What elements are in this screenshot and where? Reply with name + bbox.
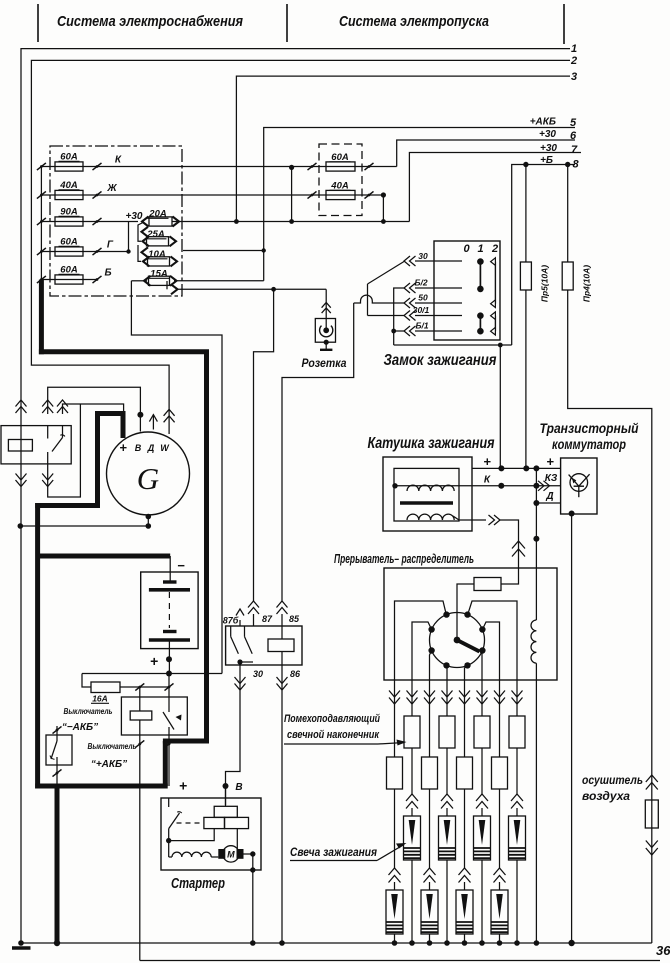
lock terminal Б/2 line — [415, 287, 462, 289]
lock contact column2 bar upper — [494, 262, 496, 304]
plug 3 connector chevrons — [424, 868, 436, 875]
fuse 10А right arrow — [171, 256, 178, 266]
generator plus junction dot — [137, 412, 143, 418]
thick cable from Б fuse row — [39, 280, 44, 355]
relay 87 wire from fuse 15А branch — [254, 289, 274, 601]
starter contact lower wire — [168, 829, 170, 857]
junction dot Ж branch — [381, 192, 386, 197]
+Б return line under lock — [394, 344, 512, 346]
lock column2 contact wedge — [491, 300, 496, 308]
generator bottom dot — [146, 514, 152, 520]
16А fuse body — [91, 682, 120, 693]
commutator transistor symbol — [570, 474, 588, 492]
svg-text:Б/1: Б/1 — [415, 321, 428, 331]
fuse 15А left arrow — [144, 276, 151, 286]
coil K dot right — [533, 483, 539, 489]
svg-text:+: + — [179, 778, 187, 794]
battery plus rail — [82, 673, 222, 675]
suppressor tip 7 body — [499, 680, 501, 757]
svg-text:85: 85 — [289, 614, 300, 624]
svg-text:Б/2: Б/2 — [414, 278, 427, 288]
spark plug 6 body — [481, 808, 483, 816]
generator ground junction dot — [146, 523, 152, 529]
relay 30 chevrons — [235, 684, 246, 691]
spark plug 2 ground wire — [411, 860, 413, 943]
svg-text:Система электропуска: Система электропуска — [339, 13, 489, 30]
lock terminal Б/1 line — [415, 330, 462, 332]
svg-text:Помехоподавляющий: Помехоподавляющий — [284, 713, 380, 725]
thick cable jog down to starter plus — [163, 741, 168, 786]
junction dot commutator wire on bus — [568, 940, 574, 946]
fuse F3 90А body — [55, 217, 83, 226]
rotor arm — [457, 640, 480, 652]
svg-text:0: 0 — [463, 243, 470, 255]
distributor output wire 5 — [465, 665, 468, 680]
wire 5 +AKB (down at left end to 15A fuse line) — [264, 128, 575, 281]
generator bottom wire — [147, 515, 149, 526]
svg-text:Ж: Ж — [106, 183, 117, 194]
starter solenoid winding lower-left — [204, 817, 225, 828]
svg-text:Выключатель: Выключатель — [64, 706, 113, 716]
bracket arrow 25А — [142, 227, 149, 237]
relay contact 2 — [244, 626, 246, 637]
thick cable bottom run — [35, 784, 168, 789]
plus switch coil connection mark — [135, 740, 144, 747]
lock column2 contact wedge — [491, 327, 496, 335]
bracket 20А to 25А — [138, 223, 143, 242]
svg-text:Г: Г — [107, 240, 114, 251]
starter B wire into solenoid — [225, 786, 227, 806]
rotor electrode dot 7 — [443, 662, 449, 668]
plug 2 connector chevrons — [406, 794, 418, 801]
bracket arrow 10А — [142, 247, 149, 257]
spark plug 8 body — [516, 808, 518, 816]
regulator relay box — [1, 426, 71, 464]
wire 7 +30 (down at left end to 40A fuse branch) — [409, 153, 581, 222]
fuse F1 60А body — [55, 162, 83, 171]
junction dot Б/1 on bracket — [391, 329, 396, 334]
relay contact common dot — [237, 659, 242, 664]
15А-left wire down to starter relay 87b / battery plus rail — [131, 281, 222, 674]
suppressor tip 6 body — [481, 680, 483, 716]
junction dot plug wire 8 on bus — [514, 940, 520, 946]
svg-text:+: + — [546, 454, 554, 469]
fuse F5 60А row line — [41, 279, 98, 281]
wire 1 (top bus, wraps left edge down to ground) — [21, 49, 570, 943]
starter output dot — [250, 851, 255, 856]
commutator Д line — [536, 502, 560, 504]
Д wire down to distributor coil — [535, 468, 537, 620]
svg-text:30: 30 — [418, 251, 428, 261]
lock contact column1 link 30-Б/2 — [479, 262, 481, 289]
coil + line — [472, 467, 561, 469]
fuse 15А body — [149, 276, 170, 285]
distributor box — [384, 568, 557, 680]
K line chevrons to КЗ — [544, 481, 550, 491]
svg-text:Пр4(10А): Пр4(10А) — [582, 265, 592, 302]
lock terminal Б/1 chevrons — [404, 326, 410, 336]
svg-text:КЗ: КЗ — [545, 473, 558, 484]
socket body box — [315, 319, 335, 343]
wire 8 +B (down at left end under ignition lock) — [512, 165, 575, 346]
junction dot coil feed — [498, 343, 503, 348]
plug 8 connector chevrons — [511, 794, 523, 801]
plug 5 connector chevrons — [459, 868, 471, 875]
distributor output wire 4 — [445, 665, 448, 680]
connection mark at battery riser — [165, 683, 174, 690]
Д junction dot — [533, 500, 539, 506]
fuse F4 60А body — [55, 247, 83, 256]
distributor output wire 1 — [395, 601, 447, 680]
thick cable upper horizontal — [39, 349, 209, 354]
fuse Pr4 body — [562, 262, 573, 290]
junction dot wire8/fuse Pr5 — [523, 162, 528, 167]
resistor lead to rotor — [457, 584, 474, 640]
plus switch coil wire — [139, 687, 141, 711]
fuse Pr5 body — [520, 262, 531, 290]
lock terminal 50 line — [415, 302, 462, 304]
battery plate long top — [149, 588, 190, 592]
plus switch contact connection mark — [165, 740, 174, 747]
regulator contact outer stub — [62, 426, 64, 438]
spark plug wire 1 connector chevrons — [389, 698, 400, 705]
fuse 25А body — [147, 237, 169, 246]
minus switch wire upper stub — [56, 726, 58, 741]
wire 30-30/1 vertical (under hop) — [367, 284, 369, 316]
spark plug 3 ground wire — [429, 934, 431, 943]
starter contact blade — [169, 813, 180, 829]
starter output wire to ground bus — [252, 854, 254, 943]
coil K terminal dot — [498, 483, 504, 489]
header tick middle — [286, 4, 288, 42]
thick cable left branch — [35, 503, 100, 508]
junction dot plug wire 7 on bus — [497, 940, 503, 946]
plus switch contact blade — [163, 712, 174, 730]
coil HV output wire — [453, 516, 486, 520]
connection mark on 16А line — [135, 683, 144, 690]
fuse F3 output connection mark — [93, 218, 102, 225]
K row line through 60А fuse — [292, 166, 397, 168]
fuse 25А left arrow — [143, 236, 150, 246]
minus switch connection mark upper — [53, 726, 62, 733]
wire 2 (second bus, wraps left edge, to generator W) — [31, 60, 570, 434]
commutator bottom pin dot — [569, 511, 575, 517]
fuse Pr5 wire (from +Б to coil +) — [525, 165, 527, 263]
battery plus lead — [168, 640, 170, 674]
socket lower stub — [325, 342, 327, 350]
svg-text:В: В — [135, 443, 142, 453]
spark plug wire 6 connector chevrons — [477, 698, 488, 705]
svg-text:87б: 87б — [223, 616, 239, 626]
lock terminal 30 line — [415, 260, 462, 262]
distributor resistor — [474, 578, 501, 591]
svg-text:+: + — [150, 653, 158, 669]
svg-text:30: 30 — [253, 669, 263, 679]
starter solenoid winding lower-right — [225, 817, 249, 828]
svg-text:Д: Д — [545, 491, 553, 502]
svg-text:30/1: 30/1 — [413, 305, 430, 315]
fuse F4 60А row line — [41, 251, 128, 253]
battery dashed middle — [168, 592, 170, 628]
junction dot plug wire 3 on bus — [427, 940, 433, 946]
junction dot +30/Г row — [126, 249, 130, 253]
fuse F2 output connection mark — [93, 191, 102, 198]
svg-text:Свеча зажигания: Свеча зажигания — [290, 847, 377, 859]
ignition coil core bar — [400, 501, 453, 505]
battery plus dot — [166, 656, 172, 662]
starter solenoid output riser — [169, 829, 215, 841]
svg-text:Стартер: Стартер — [171, 876, 225, 892]
minus switch connection mark lower — [53, 769, 62, 776]
fuse F3 bus connection mark — [37, 218, 46, 225]
suppressor tip 5 body — [464, 680, 466, 757]
junction dot wire3 on +30 line — [234, 219, 239, 224]
spark plug 8 ground wire — [516, 860, 518, 943]
relay 87 connector chevrons — [248, 601, 259, 608]
svg-text:К: К — [484, 475, 491, 486]
svg-text:2: 2 — [570, 55, 577, 67]
junction dot relay86 on bus — [279, 940, 285, 946]
Г row extension to +АКБ riser — [183, 250, 264, 252]
junction dot socket feed / relay-87 drop — [271, 287, 276, 292]
second bottom rail — [140, 960, 660, 962]
socket symbol open arc — [320, 326, 333, 337]
suppressor label underline — [284, 743, 378, 745]
svg-text:Прерыватель– распределитель: Прерыватель– распределитель — [334, 552, 474, 566]
svg-text:50: 50 — [418, 293, 428, 303]
spark plug 3 body — [429, 882, 431, 890]
rotor electrode dot 1 — [443, 611, 449, 617]
generator G circle — [107, 432, 190, 515]
spark label arrow — [377, 845, 404, 861]
commutator box — [561, 458, 597, 514]
regulator coil — [8, 440, 32, 452]
battery plus junction dot on rail — [166, 671, 172, 677]
thick cable right leg — [95, 411, 100, 508]
svg-text:воздуха: воздуха — [582, 789, 630, 803]
fuse 60А right connection mark — [365, 163, 374, 170]
spark plug wire 5 connector chevrons — [459, 698, 470, 705]
distributor output wire 7 — [482, 622, 499, 680]
bracket 25А to 10А — [138, 245, 141, 261]
generator D terminal arrow — [152, 415, 154, 430]
plug 6 connector chevrons — [476, 794, 488, 801]
junction dot Ж branch bottom — [381, 219, 386, 224]
svg-text:1: 1 — [571, 43, 577, 55]
starter motor right lead — [244, 853, 253, 855]
svg-text:87: 87 — [262, 614, 273, 624]
lock column2 contact wedge — [491, 258, 496, 266]
fuse F5 output connection mark — [93, 276, 102, 283]
ground bus — [21, 942, 652, 944]
spark plug 7 body — [499, 882, 501, 890]
minus switch lower stub — [56, 757, 58, 786]
junction dot wire8/fuse Pr4 — [565, 162, 570, 167]
thick cable jog left — [163, 739, 209, 744]
junction dot thick-ground — [54, 940, 60, 946]
fuse-block left bus (thin part) — [40, 167, 42, 280]
spark plug wire 2 connector chevrons — [407, 698, 418, 705]
starter field winding — [172, 852, 211, 857]
generator W terminal chevrons (wire 2) — [164, 409, 175, 416]
relay 86 wire to ground bus — [281, 652, 283, 944]
HV connector chevrons — [512, 541, 525, 549]
thick cable bridge at generator plus — [95, 411, 126, 416]
middle fuse block dashed border — [319, 144, 362, 216]
socket symbol center dot — [323, 327, 329, 333]
svg-text:+АКБ: +АКБ — [530, 117, 556, 128]
thick cable ground branch — [55, 786, 60, 943]
socket feed arrow — [171, 284, 178, 294]
junction dot plug wire 5 on bus — [462, 940, 468, 946]
fuse F4 bus connection mark — [37, 248, 46, 255]
wire1 connector chevrons below regulator — [16, 480, 27, 487]
thick cable left down leg — [35, 503, 40, 789]
spark plug 7 ground wire — [499, 934, 501, 943]
starter motor brush right — [237, 849, 244, 859]
svg-text:2: 2 — [491, 243, 498, 255]
regulator contact chevrons (inner) — [42, 400, 53, 407]
socket feed line (to Розетка) — [176, 288, 326, 290]
rotor electrode dot 2 — [464, 611, 470, 617]
svg-text:Розетка: Розетка — [302, 356, 347, 370]
starter motor brush left — [218, 849, 225, 859]
svg-text:Транзисторный: Транзисторный — [540, 420, 639, 436]
lock terminal 30/1 line — [415, 315, 462, 317]
spark plug 5 body — [464, 882, 466, 890]
junction dot plug wire 6 on bus — [479, 940, 485, 946]
junction dot ground wire / wire1 — [18, 523, 24, 529]
svg-text:G: G — [137, 461, 159, 496]
coil + dot (feed) — [498, 465, 504, 471]
wire 30 to 30/1 diagonal — [368, 262, 405, 285]
coil + feed wire down — [499, 345, 501, 468]
thick cable battery minus branch — [38, 554, 171, 559]
distributor output wire 3 — [430, 651, 432, 681]
coil + dot (Pr5) — [523, 465, 529, 471]
starter solenoid winding upper — [214, 806, 237, 817]
generator ground wire to frame — [20, 525, 148, 527]
plus switch contact wire (battery riser) — [168, 674, 170, 713]
HV chevrons — [494, 515, 500, 525]
battery plate short top — [163, 580, 177, 583]
spark label underline — [290, 860, 377, 862]
regulator inner wire to generator plus — [48, 387, 141, 431]
junction dot K-branch bottom — [289, 219, 294, 224]
svg-text:16А: 16А — [92, 694, 108, 704]
suppressor tip 4 body — [446, 680, 448, 716]
distributor rotor circle — [430, 613, 485, 668]
svg-text:+Б: +Б — [540, 155, 553, 166]
svg-text:Катушка зажигания: Катушка зажигания — [368, 435, 495, 452]
svg-text:Замок зажигания: Замок зажигания — [384, 352, 497, 369]
svg-text:+: + — [483, 454, 491, 469]
svg-text:Б: Б — [104, 268, 111, 279]
Ж-row branch down to +30 line — [382, 195, 384, 222]
rotor electrode dot 8 — [464, 662, 470, 668]
thick cable long right leg — [204, 352, 209, 744]
suppressor tip 1 body — [394, 680, 396, 757]
svg-text:3: 3 — [571, 71, 577, 83]
regulator contact fixed stub — [47, 426, 49, 439]
junction dot Д-wire on bus — [534, 940, 540, 946]
suppressor tip 3 body — [429, 680, 431, 757]
regulator contact chevrons (outer) — [57, 400, 68, 407]
ignition coil primary winding — [407, 485, 454, 491]
15А branch down to socket feed — [166, 281, 168, 289]
ignition lock box — [434, 241, 500, 340]
distributor output wire 6 — [481, 651, 483, 681]
coil K inner-box dot — [392, 483, 397, 488]
fuse 20А body — [149, 217, 172, 226]
+30 riser to Г row — [128, 222, 130, 252]
spark plug 4 body — [446, 808, 448, 816]
socket lower dot — [324, 340, 329, 345]
suppressor tip 2 body — [411, 680, 413, 716]
svg-text:−: − — [177, 558, 185, 573]
svg-text:+30: +30 — [540, 143, 557, 154]
HV wire down to distributor — [500, 520, 519, 568]
spark plug 1 body — [394, 882, 396, 890]
spark plug 4 ground wire — [446, 860, 448, 943]
fuse 25А right arrow — [170, 236, 177, 246]
plus battery switch box — [121, 697, 187, 735]
svg-text:В: В — [235, 782, 242, 793]
lock contact column1 link 30/1-Б/1 — [479, 316, 481, 332]
battery plate short bottom — [163, 630, 177, 633]
regulator contact bottom wire — [48, 404, 81, 497]
+30 line to the right (to wire 7 riser) — [172, 221, 409, 223]
regulator contact blade — [52, 438, 63, 452]
lock contact column2 bar lower — [494, 316, 496, 332]
lock column2 contact wedge — [491, 312, 496, 320]
minus switch blade — [51, 741, 57, 759]
coil + dot (right) — [533, 465, 539, 471]
ignition coil inner box — [394, 468, 459, 521]
spark plug wire 8 connector chevrons — [512, 698, 523, 705]
16А fuse output line — [120, 686, 169, 688]
air dryer upper chevrons — [646, 775, 658, 782]
ground symbol — [18, 940, 24, 946]
junction dot K-branch top — [289, 165, 294, 170]
rotor electrode dot 6 — [479, 647, 485, 653]
spark plug 5 ground wire — [464, 934, 466, 943]
regulator contact lower chevrons — [42, 480, 53, 487]
fuse 40А (middle) body — [326, 190, 355, 199]
relay coil top wire — [281, 626, 283, 639]
starter solenoid right output to motor — [236, 829, 238, 849]
spark plug wire 7 connector chevrons — [494, 698, 505, 705]
spark plug 1 ground wire — [394, 934, 396, 943]
coil K line — [394, 485, 561, 487]
svg-text:Выключатель: Выключатель — [88, 741, 137, 751]
relay 85 connector chevrons — [277, 601, 288, 608]
fuse Pr4 wire (from +Б to right bus) — [567, 165, 569, 263]
suppressor tip 8 body — [516, 680, 518, 716]
K-row branch down to +30 line — [291, 167, 293, 221]
Д wire dot — [533, 536, 539, 542]
16А fuse drop — [82, 674, 91, 688]
relay armature arrow — [239, 620, 241, 626]
rotor electrode dot 3 — [428, 626, 434, 632]
svg-text:Система электроснабжения: Система электроснабжения — [57, 13, 243, 30]
starter motor circle M — [223, 846, 239, 862]
regulator top wire to generator corner — [63, 404, 124, 414]
header tick right — [563, 4, 565, 44]
spark plug wire 3 connector chevrons — [424, 698, 435, 705]
distributor coil bottom wire to ground bus — [535, 663, 537, 943]
fuse 20А right arrow — [173, 217, 180, 227]
